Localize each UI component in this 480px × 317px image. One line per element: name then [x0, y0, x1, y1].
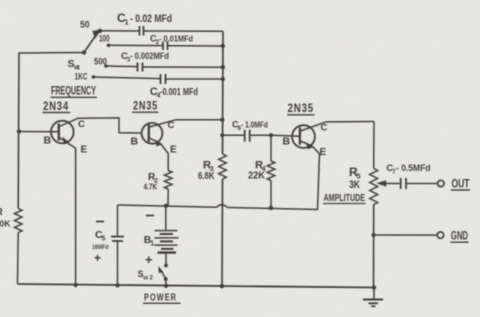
svg-text:2N35: 2N35: [133, 99, 158, 113]
svg-text:4.7K: 4.7K: [144, 182, 158, 192]
svg-text:B: B: [283, 136, 291, 148]
svg-text:C: C: [321, 123, 328, 134]
svg-text:OUT: OUT: [452, 178, 470, 190]
svg-text:16MFd: 16MFd: [92, 244, 109, 251]
svg-text:6.8K: 6.8K: [198, 170, 215, 182]
svg-text:- 0.5MFd: - 0.5MFd: [396, 163, 431, 173]
svg-text:POWER: POWER: [144, 293, 177, 304]
svg-text:E: E: [320, 147, 327, 158]
svg-text:- 0.01MFd: - 0.01MFd: [159, 34, 193, 44]
svg-text:5: 5: [102, 236, 106, 243]
svg-text:50: 50: [80, 20, 90, 30]
svg-text:AMPLITUDE: AMPLITUDE: [324, 192, 366, 204]
svg-text:1: 1: [124, 18, 128, 27]
svg-text:100: 100: [99, 34, 110, 44]
svg-text:+: +: [94, 251, 101, 265]
svg-text:w: w: [142, 275, 149, 282]
svg-text:-0.001 MFd: -0.001 MFd: [160, 87, 198, 98]
svg-text:E: E: [170, 145, 177, 156]
svg-text:- 0.002MFd: - 0.002MFd: [130, 51, 169, 61]
svg-text:B: B: [44, 135, 52, 147]
svg-text:FREQUENCY: FREQUENCY: [51, 86, 96, 98]
svg-text:+: +: [145, 252, 153, 267]
svg-text:1: 1: [150, 241, 154, 248]
svg-text:22K: 22K: [248, 170, 265, 182]
svg-text:C: C: [78, 119, 85, 130]
svg-text:0K: 0K: [0, 219, 11, 229]
svg-text:- 1.0MFd: - 1.0MFd: [241, 120, 268, 130]
svg-text:1KC: 1KC: [75, 72, 88, 83]
svg-text:- 0.02 MFd: - 0.02 MFd: [130, 13, 172, 25]
svg-text:2N35: 2N35: [288, 101, 314, 115]
svg-text:E: E: [81, 145, 88, 156]
svg-text:2N34: 2N34: [43, 99, 69, 113]
svg-text:GND: GND: [451, 231, 468, 243]
svg-text:500: 500: [94, 57, 107, 68]
svg-text:B: B: [131, 136, 139, 148]
svg-text:3K: 3K: [349, 179, 360, 191]
svg-text:C: C: [168, 120, 175, 131]
